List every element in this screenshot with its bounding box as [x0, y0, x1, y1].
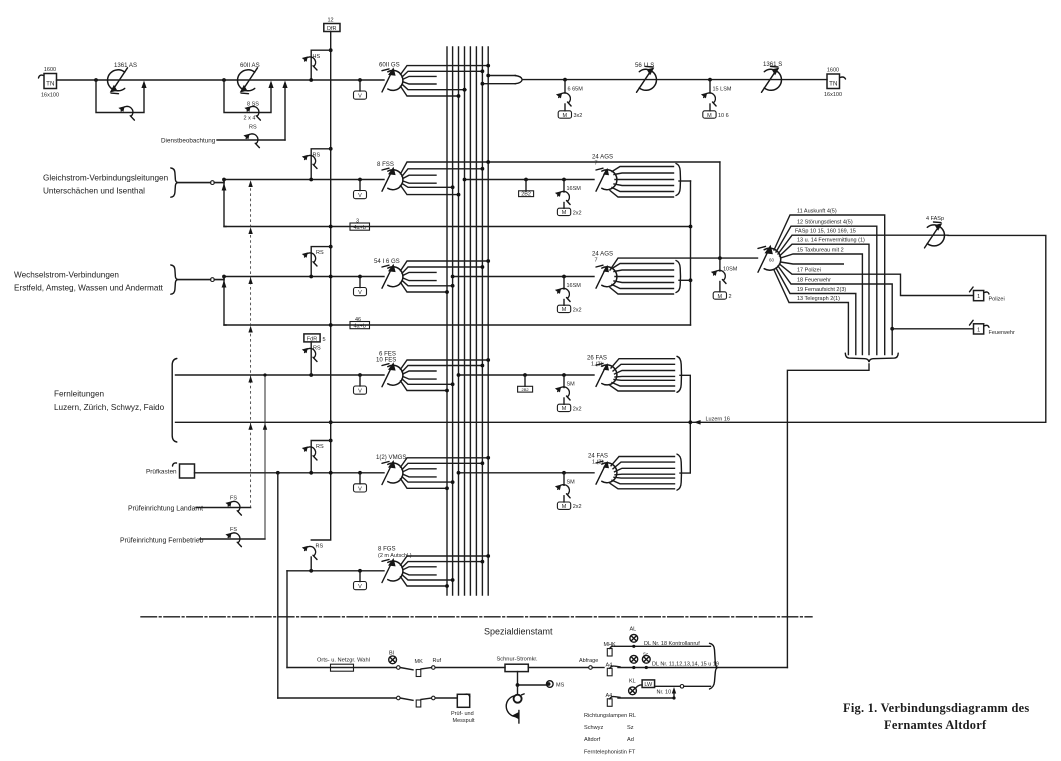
wire Orts line to Schnur box	[435, 667, 505, 669]
wire bottom line A Orts- u. Netzgruppenwahl	[287, 667, 396, 669]
svg-text:3x2: 3x2	[574, 113, 583, 119]
selector in loop1	[118, 106, 134, 120]
svg-text:1: 1	[977, 294, 980, 300]
svg-text:Wechselstrom-Verbindungen: Wechselstrom-Verbindungen	[14, 271, 119, 280]
subscriber box TN left (1600 / 16x100)	[39, 67, 60, 99]
separator dash-dot line	[141, 616, 812, 618]
collector brace service bundle	[845, 353, 898, 362]
svg-text:M: M	[562, 307, 567, 313]
wire service line 13 Telegraph	[774, 270, 848, 355]
contact on line B	[397, 696, 458, 707]
wire fan 24AGS row2 lines	[610, 167, 674, 198]
svg-text:4a+b: 4a+b	[354, 225, 366, 231]
svg-text:Schwyz: Schwyz	[584, 725, 603, 731]
node dot row1 V stub	[358, 78, 362, 82]
svg-text:19 Fernaufsicht 2(3): 19 Fernaufsicht 2(3)	[797, 287, 846, 293]
svg-text:V: V	[358, 486, 362, 492]
svg-text:24 FAS: 24 FAS	[588, 453, 608, 460]
svg-text:46: 46	[355, 317, 361, 323]
svg-text:12: 12	[328, 18, 334, 24]
wire fan row1 line4 short	[403, 82, 436, 84]
wire lamp row D	[618, 691, 674, 699]
node dot row4 V stub	[358, 373, 362, 377]
wire fan row2 line1 long to zentrale riser	[401, 162, 720, 174]
wire fan row1 line2	[402, 71, 482, 77]
svg-text:16SM: 16SM	[567, 186, 582, 192]
selector RS row6	[302, 546, 317, 560]
svg-text:RS: RS	[316, 250, 324, 256]
svg-text:5: 5	[323, 337, 326, 343]
wire fan row4 line5	[402, 379, 454, 384]
svg-text:M: M	[563, 113, 568, 119]
bundle bracket row3	[171, 265, 178, 294]
selector 15 LSM with meter box	[701, 80, 732, 119]
box 1 Polizei	[970, 287, 1005, 303]
node dot row3 at DfR vertical	[329, 275, 333, 279]
wire service line 15 Taxbureau	[781, 254, 863, 355]
node dot SM row5	[562, 471, 566, 475]
bundle bracket row4 tall	[172, 359, 177, 443]
node dot row6 x311	[309, 569, 313, 573]
wire dashed test riser Landamt	[250, 183, 252, 508]
box 4a+b row3	[350, 317, 370, 329]
selector RS row4	[310, 342, 312, 375]
wire main line row1 right	[522, 79, 827, 81]
svg-text:60: 60	[769, 258, 775, 263]
wire fan row6 line2	[402, 562, 482, 568]
wire riser row2 to b-wire	[224, 180, 226, 227]
wire service line 13u14 Fernvermittlung	[780, 244, 870, 354]
wire HS tap row1	[311, 50, 331, 80]
wire fan row5 line6	[401, 479, 448, 489]
svg-text:SM: SM	[567, 479, 576, 485]
svg-text:60II GS: 60II GS	[379, 62, 400, 69]
node dot row1 x96	[94, 78, 98, 82]
relay box V row1	[359, 80, 361, 91]
svg-text:11 Auskunft 4(5): 11 Auskunft 4(5)	[797, 208, 837, 214]
svg-text:M: M	[718, 294, 723, 300]
lamp Bl	[389, 651, 397, 664]
wire service line 11 Auskunft	[774, 215, 885, 355]
node dot row3 V stub	[358, 275, 362, 279]
collector bracket row2	[676, 164, 681, 196]
svg-text:TN: TN	[829, 81, 837, 88]
node dot row3 x311	[309, 275, 313, 279]
svg-text:2x2: 2x2	[573, 504, 582, 510]
wire fan row2 line5	[402, 183, 454, 187]
wire main line row6	[287, 570, 384, 572]
svg-text:18 Feuerwehr: 18 Feuerwehr	[797, 277, 831, 283]
node dot row2 V stub	[358, 178, 362, 182]
wire fan 26FAS row4 lines	[610, 359, 675, 391]
selector RS row5	[302, 446, 317, 460]
node dot 6 65M	[563, 78, 567, 82]
wire fan row1 line5	[402, 84, 466, 90]
svg-text:1.(2): 1.(2)	[591, 362, 602, 368]
wire fan row4 line3 short	[403, 371, 436, 374]
selector 56 I LS	[637, 66, 657, 92]
svg-text:26 FAS: 26 FAS	[587, 355, 607, 362]
svg-text:Ferntelephonistin FT: Ferntelephonistin FT	[584, 749, 636, 755]
selector 8 SS	[244, 106, 260, 120]
selector SM row5 with meter box	[555, 473, 582, 510]
node dot row4b at DfR vertical	[329, 420, 333, 424]
wire Fernbetrieb line	[200, 538, 265, 540]
wire test riser Fernbetrieb	[264, 375, 266, 539]
wire RS tap row3	[311, 247, 331, 277]
svg-text:13 Telegraph 2(1): 13 Telegraph 2(1)	[797, 296, 840, 302]
svg-text:RS: RS	[249, 125, 257, 131]
node dot row5 V stub	[358, 471, 362, 475]
wire fan 24AGS row3 lines	[610, 264, 674, 295]
wire b-line row4 Luzern 16	[176, 421, 1046, 423]
wire b-line row3	[224, 324, 691, 326]
wire fan row2 line3 short	[403, 175, 436, 178]
svg-text:KL: KL	[629, 678, 636, 684]
box Prüfkasten	[146, 463, 195, 478]
group selector 8 FSS	[382, 167, 403, 192]
collector bracket row5	[677, 454, 682, 490]
wire fan row1 line1	[401, 66, 489, 75]
wire main row2 right of bus	[465, 179, 595, 181]
svg-text:TN: TN	[46, 81, 54, 88]
selector 24 AGS row2	[596, 168, 617, 191]
svg-text:Prüfeinrichtung Landamt: Prüfeinrichtung Landamt	[128, 506, 203, 513]
wire RS stub row6	[310, 557, 312, 571]
selector FS Fernbetrieb	[225, 533, 241, 547]
wire fan row6 line6	[401, 577, 448, 586]
wire lamp row B	[592, 667, 604, 669]
svg-text:HS: HS	[313, 54, 321, 60]
svg-text:Schnur-Stromkr.: Schnur-Stromkr.	[497, 656, 539, 662]
wire long vertical from DfR box	[311, 32, 330, 541]
lamp row C KL with LW box	[629, 678, 655, 694]
svg-text:RS: RS	[316, 444, 324, 450]
svg-text:6 65M: 6 65M	[568, 87, 584, 93]
svg-text:2B2: 2B2	[522, 387, 530, 392]
group selector 1(2) VMGS	[382, 460, 403, 485]
node dot 16SM row3	[562, 275, 566, 279]
wire RS tap row2	[311, 149, 331, 180]
wire fan row2 line4 short	[403, 181, 436, 183]
group selector 6 FES 10 FES	[382, 362, 403, 387]
wire fan row6 line3 short	[403, 567, 436, 570]
wire main row3 right of bus	[453, 276, 594, 278]
svg-text:V: V	[358, 193, 362, 199]
svg-text:Fig. 1. Verbindungsdiagramm d: Fig. 1. Verbindungsdiagramm des	[843, 701, 1029, 715]
relay box V row2	[359, 180, 361, 191]
node dot Luzern junction	[688, 420, 692, 424]
wire service line 16 stub	[781, 262, 844, 264]
svg-text:Unterschächen und Isenthal: Unterschächen und Isenthal	[43, 187, 145, 196]
lamp row A MHK	[604, 642, 634, 656]
svg-text:DL Nr. 11,12,13,14, 15 u 19: DL Nr. 11,12,13,14, 15 u 19	[652, 661, 719, 667]
svg-text:V: V	[358, 94, 362, 100]
wire Landamt line	[196, 507, 251, 509]
box U2 row4	[523, 373, 527, 377]
svg-text:FS: FS	[230, 496, 237, 502]
svg-text:8 SS: 8 SS	[247, 102, 259, 108]
selector FS Landamt	[225, 501, 241, 515]
svg-text:1(2) VMGS: 1(2) VMGS	[376, 454, 406, 461]
wire fan row3 line6	[401, 282, 448, 292]
svg-text:M: M	[562, 504, 567, 510]
collector bracket lamp rows	[710, 643, 718, 689]
wire fan row5 line3 short	[403, 469, 436, 472]
group selector 8 FGS	[382, 558, 403, 583]
selector SM row4 with meter box	[555, 375, 582, 412]
wire b-line row2	[224, 226, 691, 228]
wire fan row4 line4 short	[403, 377, 436, 380]
node dot 16SM row2	[562, 178, 566, 182]
svg-text:54 I 6 GS: 54 I 6 GS	[374, 258, 400, 265]
relay box V row5	[359, 473, 361, 484]
trunk bus of 8 vertical lines x447-488	[447, 47, 488, 595]
box FdR 5 row4	[304, 334, 326, 343]
wire main line row2	[224, 179, 384, 181]
svg-text:M: M	[562, 406, 567, 412]
svg-text:AL: AL	[630, 627, 637, 633]
svg-text:Polizei: Polizei	[989, 297, 1005, 303]
wire brace output to riser	[787, 364, 869, 668]
relay A4 row D	[606, 693, 621, 707]
wire fan row6 line5	[402, 575, 454, 580]
node dot row1 x311	[309, 78, 313, 82]
wire bracket output row3	[679, 279, 691, 281]
wire fan row1 line6	[401, 86, 459, 96]
wire loop under 1361 AS	[96, 80, 144, 113]
svg-text:Richtungslampen RL: Richtungslampen RL	[584, 713, 636, 719]
svg-text:Prüf- und: Prüf- und	[451, 711, 474, 717]
group selector 60II GS	[382, 67, 403, 92]
wire headset stub	[518, 672, 547, 685]
selector 10SM with meter box	[711, 258, 738, 300]
svg-text:10 FES: 10 FES	[376, 357, 396, 364]
wire Schnur to Abfrage	[528, 667, 588, 669]
wire fan row3 line4 short	[403, 278, 436, 281]
wire main row4 right of bus	[459, 374, 595, 376]
wire RS tap row5	[311, 441, 331, 473]
wire lamp row C	[655, 685, 680, 687]
wire fan row3 line5	[402, 280, 454, 285]
svg-text:M: M	[707, 113, 712, 119]
wire row2 left stub with connector	[178, 182, 211, 184]
wire service line FASp	[778, 235, 948, 254]
operator headset symbol	[506, 685, 524, 723]
selector 60II AS	[238, 68, 258, 94]
wire riser row3 to b-wire	[224, 277, 226, 326]
node dot row6 V stub	[358, 569, 362, 573]
svg-text:Luzern, Zürich, Schwyz, Faido: Luzern, Zürich, Schwyz, Faido	[54, 403, 165, 412]
node dot b-line row2 at DfR vertical	[329, 225, 333, 229]
selector 1361 S	[762, 66, 782, 92]
svg-text:Ad: Ad	[627, 737, 634, 743]
relay A4 row B	[606, 662, 621, 676]
wire bottom line B to Pruef- und Messpult	[278, 697, 396, 699]
svg-text:1.(2): 1.(2)	[592, 460, 603, 466]
selector RS row3	[302, 252, 317, 266]
node dot RS tap row3	[329, 245, 333, 249]
wire service line 18 Feuerwehr	[778, 266, 892, 355]
svg-text:2B2: 2B2	[521, 192, 531, 198]
selector RS on Dienstbeobachtung line	[243, 134, 259, 148]
wire row3 left stub with connector	[178, 279, 211, 281]
svg-text:Erstfeld, Amsteg, Wassen und A: Erstfeld, Amsteg, Wassen und Andermatt	[14, 284, 164, 293]
node dot SM row4	[562, 373, 566, 377]
wire fan row3 line1	[401, 261, 489, 271]
group selector 54 I 6 GS	[382, 264, 403, 289]
selector 1361 AS	[108, 68, 128, 94]
register box DfR with label 12	[324, 18, 340, 33]
wire riser row2 top line to zentrale	[719, 162, 721, 258]
svg-text:MK: MK	[415, 659, 424, 665]
svg-text:DfR: DfR	[327, 26, 337, 32]
svg-text:Ruf: Ruf	[433, 658, 442, 664]
svg-text:7: 7	[595, 161, 598, 167]
wire service line 17 Polizei	[780, 264, 973, 296]
lamp AL row A	[630, 627, 638, 648]
box Schnur-Stromkreis	[497, 656, 539, 671]
node dot RS tap row2	[329, 147, 333, 151]
node dot row2 x224	[222, 178, 226, 182]
distribution selector Spezialdienste	[758, 245, 781, 273]
node dot RS tap row5	[329, 439, 333, 443]
selector 16SM row3 with meter box	[555, 277, 582, 314]
svg-text:RS: RS	[313, 346, 321, 352]
wire zentrale line from 24AGS row3 to distribution selector	[610, 258, 758, 270]
wire fan row4 line2	[402, 366, 482, 372]
svg-text:V: V	[358, 584, 362, 590]
relay box V row3	[359, 277, 361, 288]
svg-text:2x2: 2x2	[573, 210, 582, 216]
wire riser row6 to bottom	[286, 571, 288, 668]
svg-text:1600: 1600	[44, 67, 56, 73]
svg-text:Fernleitungen: Fernleitungen	[54, 390, 105, 399]
svg-text:4a+b: 4a+b	[354, 323, 366, 329]
wire fan row5 line2	[402, 463, 482, 469]
svg-text:Feuerwehr: Feuerwehr	[989, 330, 1015, 336]
wire main line row4	[176, 374, 385, 376]
selector 24 FAS row5	[596, 461, 617, 484]
svg-text:17 Polizei: 17 Polizei	[797, 268, 821, 274]
svg-text:Sz: Sz	[627, 725, 634, 731]
wire fan row6 line1	[401, 556, 489, 565]
svg-text:56 I LS: 56 I LS	[635, 62, 654, 69]
wire bracket output row4 to Luzern line	[680, 375, 690, 422]
wire fan row5 line4 short	[403, 474, 436, 477]
svg-text:Altdorf: Altdorf	[584, 737, 601, 743]
node dot b-line row3 at DfR vertical	[329, 323, 333, 327]
svg-text:Spezialdienstamt: Spezialdienstamt	[484, 627, 553, 637]
contact MK on Orts line	[397, 658, 442, 677]
subscriber box TN right (1600 / 16x100)	[824, 68, 846, 99]
wire fan row1 line3 short	[403, 76, 436, 79]
wire pair from bus to cable joint row1	[488, 75, 515, 77]
lamps row B	[630, 652, 650, 670]
svg-text:LW: LW	[644, 682, 653, 688]
selector 6 65M with meter box	[556, 80, 583, 119]
box 1 Feuerwehr	[970, 320, 1015, 335]
svg-text:15 Taxbureau mit 2: 15 Taxbureau mit 2	[797, 247, 844, 253]
svg-text:FS: FS	[230, 527, 237, 533]
wire main row5 right of bus	[459, 472, 595, 474]
node dot row1 x224	[222, 78, 226, 82]
svg-text:Prüfkasten: Prüfkasten	[146, 469, 177, 476]
node dot row5 x311	[309, 471, 313, 475]
node dot row2 x311	[309, 178, 313, 182]
svg-text:RS: RS	[313, 153, 321, 159]
wire fan row5 line5	[402, 477, 454, 482]
svg-text:Prüfeinrichtung Fernbetrieb: Prüfeinrichtung Fernbetrieb	[120, 538, 204, 545]
wire fan row4 line6	[401, 381, 448, 391]
relay box V row6	[359, 571, 361, 582]
svg-text:8 FGS: 8 FGS	[378, 546, 396, 553]
node dot RS row4	[309, 373, 313, 377]
svg-text:Orts- u. Netzgr. Wahl: Orts- u. Netzgr. Wahl	[317, 657, 370, 663]
svg-text:16x100: 16x100	[41, 93, 59, 99]
svg-text:13 u. 14 Fernvermittlung (1): 13 u. 14 Fernvermittlung (1)	[797, 238, 865, 244]
svg-text:1361 AS: 1361 AS	[114, 62, 137, 69]
wire fan row6 line4 short	[403, 572, 436, 575]
wire main line row3	[224, 276, 384, 278]
wire fan row3 line2	[402, 267, 482, 273]
selector RS row2	[302, 155, 317, 169]
svg-text:8 FSS: 8 FSS	[377, 161, 394, 168]
svg-text:2x2: 2x2	[573, 307, 582, 313]
svg-text:Messpult: Messpult	[453, 718, 475, 724]
svg-text:1600: 1600	[827, 68, 839, 74]
box Pruef- und Messpult	[451, 694, 475, 724]
svg-text:16SM: 16SM	[567, 283, 582, 289]
wire fan row3 line3 short	[403, 272, 436, 275]
wire right edge loop FASp to Luzern line	[948, 235, 1046, 422]
node dot row5 x278	[276, 471, 280, 475]
wire fan row5 line1	[401, 458, 489, 467]
svg-text:3: 3	[356, 219, 359, 225]
box on Orts line	[331, 664, 354, 671]
legend Richtungslampen	[584, 713, 636, 756]
svg-text:FdR: FdR	[307, 336, 317, 342]
cable joint bracket row1	[515, 76, 522, 84]
wire service line 19 Fernaufsicht	[776, 268, 856, 355]
wire fan 24FAS row5 lines	[610, 457, 675, 489]
svg-text:V: V	[358, 389, 362, 395]
node dot row3 x224	[222, 275, 226, 279]
collector bracket row3	[676, 261, 681, 293]
selector 16SM row2 with meter box	[555, 180, 582, 217]
selector 24 AGS row3	[596, 265, 617, 288]
wire junction vertical x690 rows2-3	[690, 181, 692, 325]
svg-text:Luzern 16: Luzern 16	[706, 417, 730, 423]
relay box V row4	[359, 375, 361, 386]
svg-text:Gleichstrom-Verbindungsleitung: Gleichstrom-Verbindungsleitungen	[43, 174, 169, 183]
svg-text:1361 S: 1361 S	[763, 61, 782, 68]
svg-text:12 Störungsdienst 4(5): 12 Störungsdienst 4(5)	[797, 220, 853, 226]
svg-text:10 6: 10 6	[718, 113, 729, 119]
selector 4 FASp	[925, 222, 945, 248]
wire main line row1 left	[57, 79, 385, 81]
svg-text:SM: SM	[567, 382, 576, 388]
svg-text:7: 7	[595, 258, 598, 264]
svg-text:M: M	[562, 210, 567, 216]
wire riser Pruefkasten to bottom	[277, 473, 279, 698]
svg-text:1: 1	[977, 328, 980, 334]
node dot zentrale 10SM riser	[718, 256, 722, 260]
wire main line row5	[195, 472, 385, 474]
svg-text:15 LSM: 15 LSM	[713, 87, 732, 93]
svg-text:Abfrage: Abfrage	[579, 658, 598, 664]
wire fan row4 line1	[401, 360, 489, 369]
